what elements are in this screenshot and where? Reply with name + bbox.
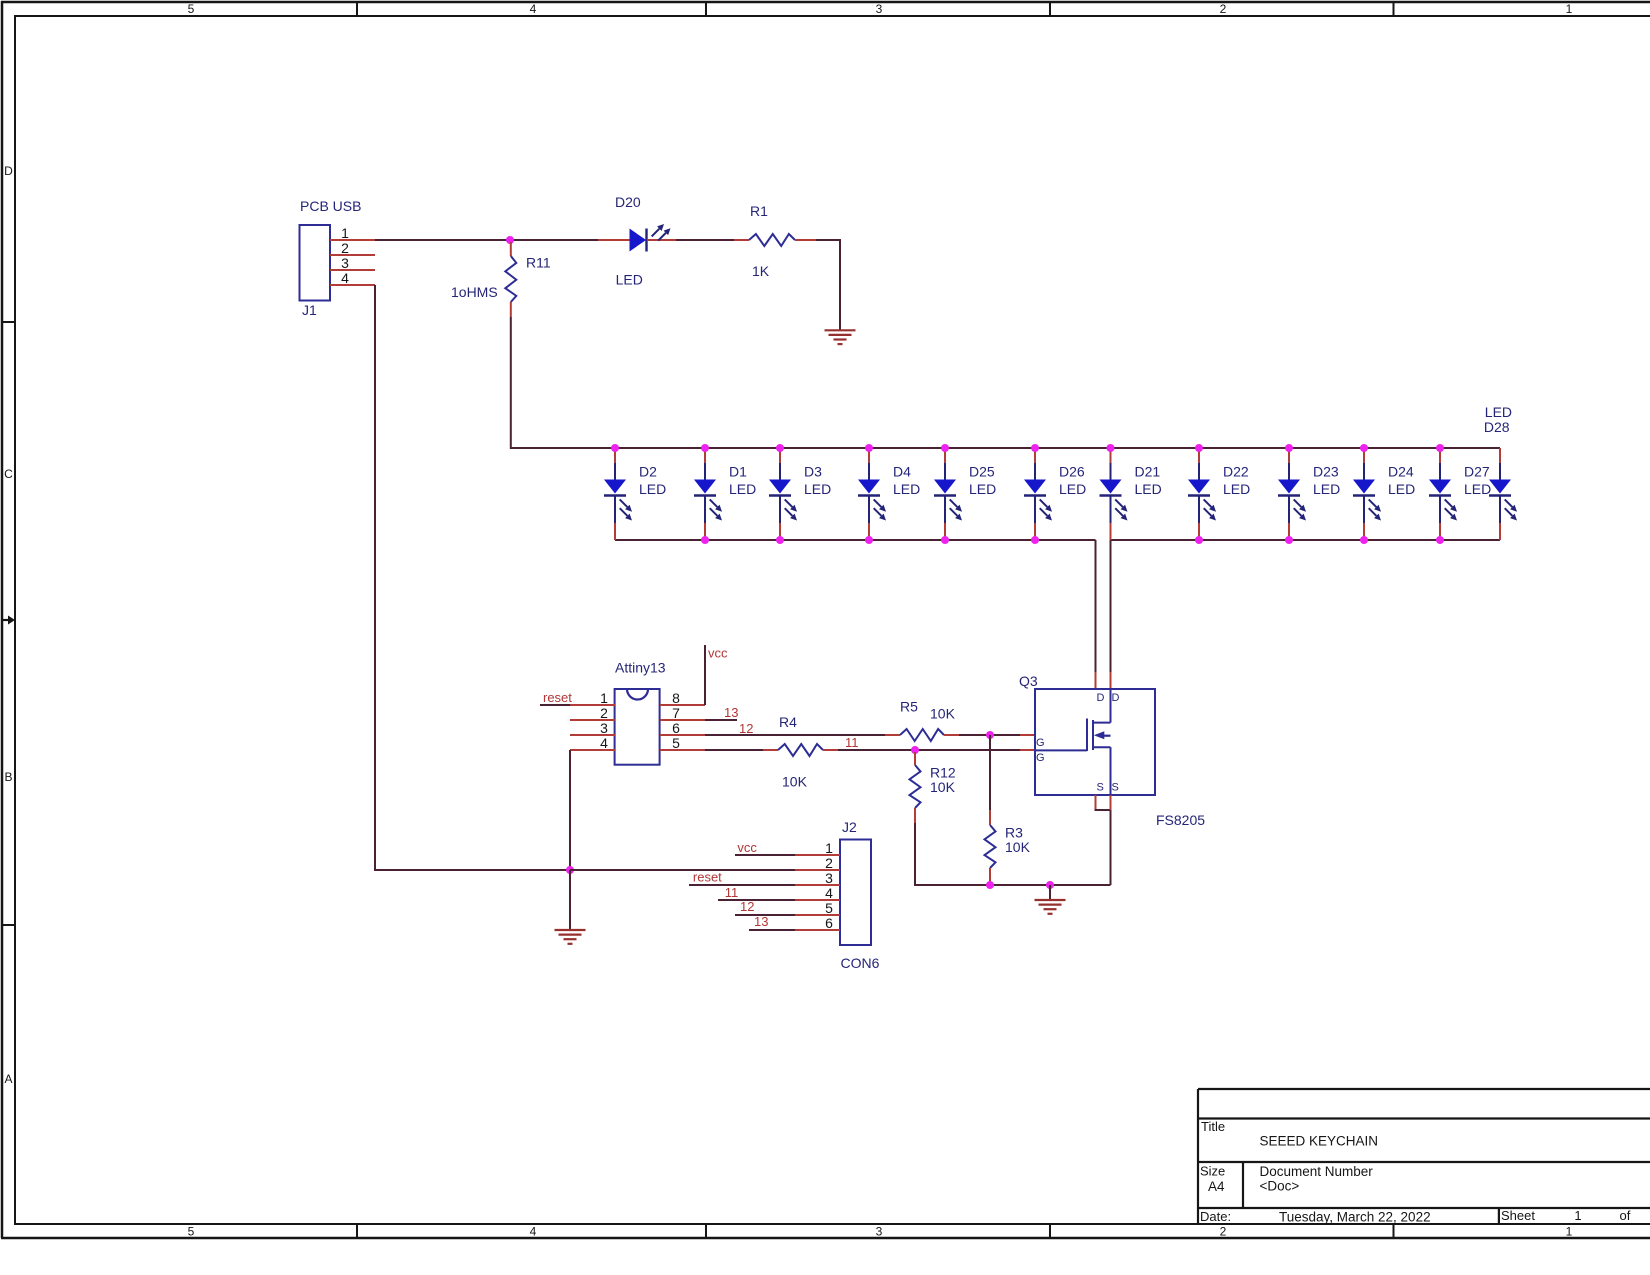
svg-text:D: D [4, 164, 13, 178]
svg-text:5: 5 [188, 1225, 195, 1239]
svg-text:3: 3 [825, 870, 833, 886]
svg-text:PCB USB: PCB USB [300, 198, 361, 214]
svg-text:of: of [1620, 1208, 1631, 1223]
svg-text:2: 2 [600, 705, 608, 721]
svg-text:Attiny13: Attiny13 [615, 660, 666, 676]
svg-text:J2: J2 [842, 819, 857, 835]
svg-text:3: 3 [876, 1225, 883, 1239]
svg-text:LED: LED [969, 481, 996, 497]
svg-text:2: 2 [341, 240, 349, 256]
svg-text:D: D [1097, 692, 1105, 704]
svg-text:2: 2 [1220, 2, 1227, 16]
svg-text:Title: Title [1201, 1119, 1225, 1134]
svg-text:reset: reset [693, 870, 722, 885]
svg-text:4: 4 [530, 2, 537, 16]
svg-text:D: D [1112, 692, 1120, 704]
svg-text:LED: LED [616, 272, 643, 288]
svg-text:R5: R5 [900, 699, 918, 715]
svg-text:1: 1 [1574, 1208, 1581, 1223]
svg-text:R4: R4 [779, 714, 797, 730]
svg-text:<Doc>: <Doc> [1260, 1179, 1300, 1194]
svg-text:vcc: vcc [708, 646, 728, 661]
svg-text:D22: D22 [1223, 464, 1249, 480]
svg-text:LED: LED [729, 481, 756, 497]
svg-text:D25: D25 [969, 464, 995, 480]
svg-text:4: 4 [530, 1225, 537, 1239]
svg-text:S: S [1097, 782, 1104, 794]
svg-text:11: 11 [725, 885, 739, 900]
svg-text:D21: D21 [1135, 464, 1161, 480]
svg-text:4: 4 [341, 270, 349, 286]
svg-text:Tuesday, March 22, 2022: Tuesday, March 22, 2022 [1279, 1210, 1431, 1225]
svg-text:6: 6 [825, 915, 833, 931]
svg-text:A: A [4, 1072, 12, 1086]
svg-text:LED: LED [1464, 481, 1491, 497]
svg-text:3: 3 [876, 2, 883, 16]
svg-text:CON6: CON6 [841, 955, 880, 971]
svg-text:D3: D3 [804, 464, 822, 480]
svg-text:Size: Size [1200, 1164, 1225, 1179]
svg-text:11: 11 [845, 735, 859, 750]
svg-text:5: 5 [188, 2, 195, 16]
svg-text:B: B [4, 770, 12, 784]
svg-text:LED: LED [1223, 481, 1250, 497]
svg-text:FS8205: FS8205 [1156, 812, 1205, 828]
svg-text:G: G [1036, 752, 1045, 764]
svg-text:D23: D23 [1313, 464, 1339, 480]
svg-text:12: 12 [739, 721, 753, 736]
svg-text:13: 13 [754, 914, 768, 929]
svg-text:1: 1 [341, 225, 349, 241]
svg-text:2: 2 [825, 855, 833, 871]
svg-text:Date:: Date: [1200, 1209, 1231, 1224]
svg-text:3: 3 [341, 255, 349, 271]
svg-text:1: 1 [1566, 1225, 1573, 1239]
svg-text:5: 5 [825, 900, 833, 916]
svg-text:LED: LED [804, 481, 831, 497]
svg-text:SEEED KEYCHAIN: SEEED KEYCHAIN [1260, 1134, 1379, 1149]
svg-text:7: 7 [672, 705, 680, 721]
svg-text:C: C [4, 467, 13, 481]
svg-text:LED: LED [639, 481, 666, 497]
svg-text:LED: LED [1388, 481, 1415, 497]
svg-text:12: 12 [740, 899, 754, 914]
svg-text:D1: D1 [729, 464, 747, 480]
svg-text:1: 1 [825, 840, 833, 856]
svg-text:1: 1 [1566, 2, 1573, 16]
svg-text:10K: 10K [782, 774, 808, 790]
svg-text:10K: 10K [930, 706, 956, 722]
svg-text:10K: 10K [930, 779, 956, 795]
svg-text:D20: D20 [615, 194, 641, 210]
svg-text:4: 4 [825, 885, 833, 901]
svg-text:13: 13 [724, 705, 738, 720]
svg-text:LED: LED [893, 481, 920, 497]
svg-text:R1: R1 [750, 203, 768, 219]
svg-text:5: 5 [672, 735, 680, 751]
svg-text:Q3: Q3 [1019, 673, 1038, 689]
svg-text:1: 1 [600, 690, 608, 706]
svg-text:LED: LED [1135, 481, 1162, 497]
svg-text:6: 6 [672, 720, 680, 736]
svg-text:A4: A4 [1208, 1179, 1225, 1194]
svg-text:D4: D4 [893, 464, 911, 480]
svg-text:1K: 1K [752, 263, 770, 279]
svg-text:LED: LED [1313, 481, 1340, 497]
svg-text:1oHMS: 1oHMS [451, 284, 498, 300]
svg-text:LED: LED [1059, 481, 1086, 497]
svg-text:D26: D26 [1059, 464, 1085, 480]
svg-text:8: 8 [672, 690, 680, 706]
svg-text:S: S [1112, 782, 1119, 794]
svg-text:D24: D24 [1388, 464, 1414, 480]
svg-text:10K: 10K [1005, 839, 1031, 855]
svg-text:Sheet: Sheet [1501, 1208, 1535, 1223]
svg-text:D27: D27 [1464, 464, 1490, 480]
svg-text:4: 4 [600, 735, 608, 751]
svg-text:3: 3 [600, 720, 608, 736]
svg-text:D2: D2 [639, 464, 657, 480]
svg-text:Document Number: Document Number [1260, 1164, 1374, 1179]
svg-text:J1: J1 [302, 302, 317, 318]
svg-text:R11: R11 [526, 255, 551, 271]
svg-text:D28: D28 [1484, 419, 1510, 435]
svg-text:vcc: vcc [737, 840, 757, 855]
svg-text:2: 2 [1220, 1225, 1227, 1239]
svg-text:G: G [1036, 737, 1045, 749]
svg-text:LED: LED [1485, 404, 1512, 420]
svg-text:reset: reset [543, 690, 572, 705]
